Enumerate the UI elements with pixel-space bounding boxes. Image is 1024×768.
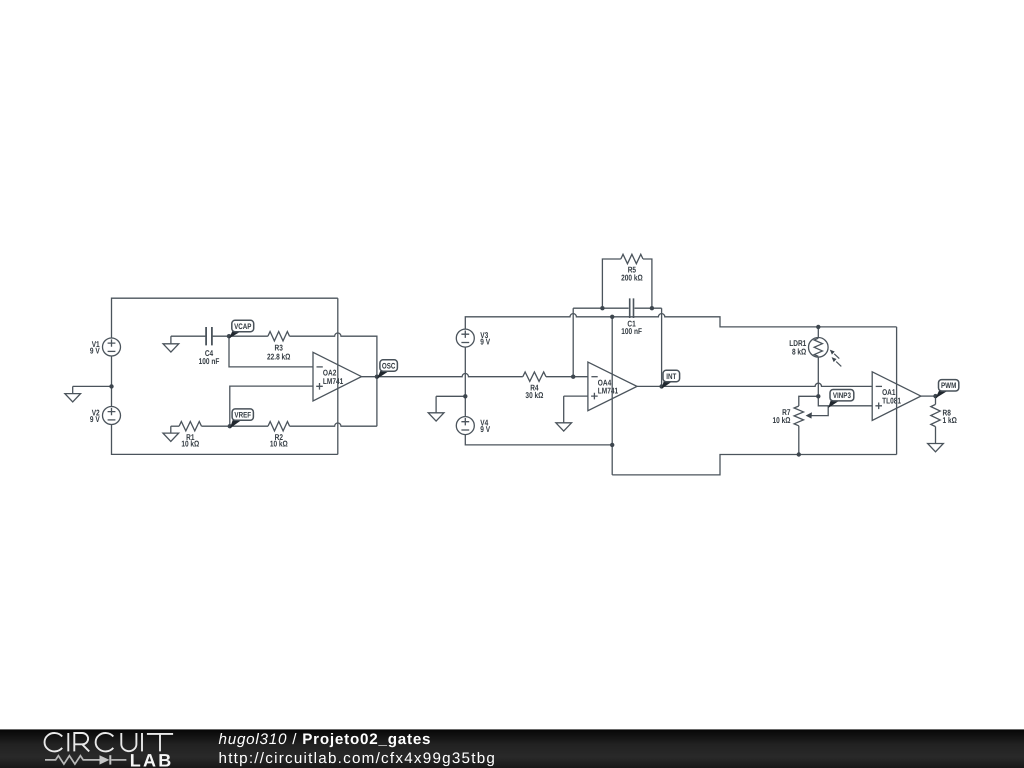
svg-text:http://circuitlab.com/cfx4x99g: http://circuitlab.com/cfx4x99g35tbg (219, 750, 497, 767)
svg-text:LM741: LM741 (598, 386, 619, 396)
svg-text:10 kΩ: 10 kΩ (270, 439, 288, 449)
svg-text:9 V: 9 V (480, 337, 490, 347)
svg-text:9 V: 9 V (90, 414, 100, 424)
svg-text:22.8 kΩ: 22.8 kΩ (267, 352, 291, 362)
svg-text:10 kΩ: 10 kΩ (773, 415, 791, 425)
svg-text:100 nF: 100 nF (621, 326, 642, 336)
svg-text:hugol310 / Projeto02_gates: hugol310 / Projeto02_gates (219, 731, 432, 748)
svg-text:VREF: VREF (234, 411, 251, 420)
svg-text:9 V: 9 V (90, 345, 100, 355)
svg-text:10 kΩ: 10 kΩ (181, 439, 199, 449)
svg-text:OSC: OSC (382, 361, 396, 370)
svg-text:VINP3: VINP3 (833, 391, 851, 400)
svg-text:LM741: LM741 (323, 376, 344, 386)
svg-text:LAB: LAB (130, 750, 174, 768)
svg-text:200 kΩ: 200 kΩ (621, 273, 643, 283)
svg-text:9 V: 9 V (480, 424, 490, 434)
svg-text:INT: INT (666, 372, 676, 381)
svg-text:100 nF: 100 nF (199, 356, 220, 366)
svg-text:8 kΩ: 8 kΩ (792, 347, 807, 357)
svg-text:VCAP: VCAP (234, 322, 252, 331)
svg-text:1 kΩ: 1 kΩ (943, 415, 958, 425)
svg-text:TL081: TL081 (882, 395, 901, 405)
svg-text:30 kΩ: 30 kΩ (525, 390, 543, 400)
svg-text:PWM: PWM (941, 381, 957, 390)
